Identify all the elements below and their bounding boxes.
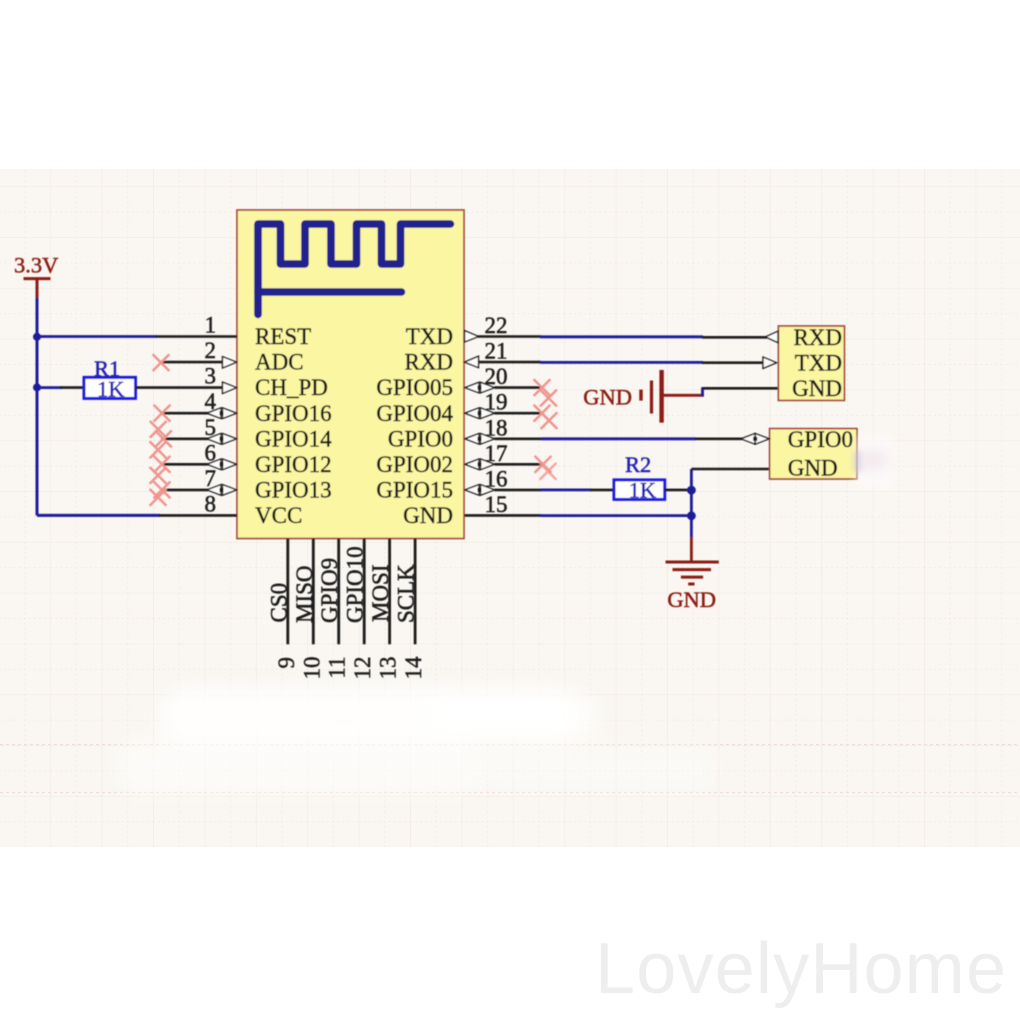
svg-text:GPIO14: GPIO14 <box>255 426 332 451</box>
svg-text:VCC: VCC <box>255 503 302 528</box>
pin arrow bidir pin4 <box>207 408 237 419</box>
pin arrow input pin3 <box>223 382 237 393</box>
no-connect X pin4 <box>154 405 171 422</box>
junction dot B <box>687 511 696 520</box>
wire pin5 <box>161 437 208 440</box>
power port 3.3V bar symbol <box>24 277 51 280</box>
svg-text:GND: GND <box>667 587 716 612</box>
power port GND1 thick bar <box>659 370 663 423</box>
svg-text:SCLK: SCLK <box>394 564 419 623</box>
smudge artifact right of header J2 <box>857 436 893 488</box>
no-connect X pin5 <box>155 430 172 447</box>
wire pin21 black-blue-black <box>478 361 764 364</box>
wire pin20 stub <box>495 386 543 389</box>
svg-text:LovelyHome: LovelyHome <box>595 929 1007 1009</box>
svg-text:RXD: RXD <box>404 350 453 375</box>
wire R2 to junction <box>664 489 691 492</box>
svg-text:8: 8 <box>205 491 217 516</box>
wire junction to GPIO0 header GND <box>691 468 769 471</box>
no-connect X pin19 offset <box>541 412 558 429</box>
junction dot A <box>687 486 696 495</box>
power port GND1 tick <box>639 390 642 401</box>
svg-text:15: 15 <box>485 492 508 517</box>
header J2 body GPIO0 GND <box>770 429 857 479</box>
resistor R2 body <box>614 480 665 500</box>
header J1 arrow RXD input <box>766 331 779 342</box>
power port GND1 thin bar <box>650 381 653 414</box>
pin arrow bidir pin18 <box>465 434 495 445</box>
wire pin10 <box>312 539 315 645</box>
svg-text:GPIO04: GPIO04 <box>376 401 453 426</box>
net 3.3V vertical rail wire <box>36 298 39 515</box>
wire pin19 stub <box>495 412 543 415</box>
wire pin17 stub <box>495 463 543 466</box>
no-connect X offset a <box>150 421 167 438</box>
svg-text:22: 22 <box>485 313 508 338</box>
svg-text:11: 11 <box>325 657 350 679</box>
no-connect X pin20 offset <box>540 390 557 407</box>
svg-text:GND: GND <box>583 385 632 410</box>
ground GND bar3 <box>681 576 703 579</box>
svg-text:GPIO13: GPIO13 <box>255 478 332 503</box>
wire pin7 <box>161 489 208 492</box>
wire pin22 black-blue-black <box>478 335 767 338</box>
wire pin18 black-blue-black <box>495 437 743 440</box>
strong dotted grid line <box>0 792 1020 794</box>
pin arrow bidir pin20 <box>465 382 495 393</box>
wire pin15 black-blue <box>465 514 692 517</box>
wire junction vertical <box>690 469 693 538</box>
svg-text:14: 14 <box>401 656 426 680</box>
svg-text:GPIO10: GPIO10 <box>343 546 368 623</box>
ground GND stem <box>690 537 693 561</box>
header J2 arrow GPIO0 bidir <box>741 434 769 445</box>
no-connect X pin20 <box>534 379 551 396</box>
svg-text:GPIO15: GPIO15 <box>376 478 453 503</box>
pin arrow bidir pin7 <box>207 485 237 496</box>
header J1 body RXD TXD GND <box>778 326 844 400</box>
pin arrow bidir pin6 <box>207 459 237 470</box>
wire GND1 red segment <box>662 394 704 397</box>
svg-text:GPIO05: GPIO05 <box>376 375 453 400</box>
svg-text:CS0: CS0 <box>266 583 291 623</box>
wire pin12 <box>363 539 366 645</box>
wire pin11 <box>337 539 340 645</box>
svg-text:GND: GND <box>792 376 842 401</box>
junction dot pin3 rail <box>33 383 41 391</box>
svg-text:GND: GND <box>403 503 453 528</box>
svg-text:ADC: ADC <box>255 350 304 375</box>
wire pin1 blue segment <box>37 335 157 338</box>
wire pin14 <box>414 539 417 645</box>
wire pin13 <box>388 539 391 645</box>
pin arrow bidir pin16 <box>465 485 495 496</box>
svg-text:3.3V: 3.3V <box>14 253 58 278</box>
svg-text:GPIO12: GPIO12 <box>255 452 332 477</box>
wire pin2 <box>161 361 222 364</box>
wire pin16 blue-black to R2 <box>495 489 615 492</box>
svg-text:21: 21 <box>485 339 508 364</box>
no-connect X pin2 <box>153 354 170 371</box>
resistor R1 body <box>84 377 136 398</box>
wire pin9 <box>286 539 289 645</box>
svg-text:GPIO9: GPIO9 <box>317 558 342 623</box>
wire pin6 <box>161 463 208 466</box>
svg-text:MOSI: MOSI <box>368 564 393 622</box>
svg-text:MISO: MISO <box>292 565 317 623</box>
svg-text:RXD: RXD <box>793 325 842 350</box>
antenna meander <box>258 224 451 315</box>
header J1 arrow TXD output <box>763 357 777 368</box>
schematic background band with grid <box>0 169 1020 847</box>
wire pin1 black segment <box>156 335 237 338</box>
no-connect X offset b <box>150 441 167 458</box>
no-connect X pin7 <box>154 482 171 499</box>
shadow artifact near header J2 <box>855 451 863 472</box>
no-connect X pin17 offset <box>540 463 557 480</box>
pin arrow bidir pin17 <box>465 459 495 470</box>
wire pin8 black segment <box>159 514 237 517</box>
wire GND1 blue step <box>701 387 704 396</box>
svg-text:6: 6 <box>205 440 217 465</box>
svg-text:R2: R2 <box>625 452 651 477</box>
pin arrow output pin22 <box>465 331 479 342</box>
wire pin8 blue segment <box>37 514 160 517</box>
wire pin4 <box>161 412 208 415</box>
svg-text:9: 9 <box>274 657 299 669</box>
svg-text:3: 3 <box>205 364 217 389</box>
ground GND bar1 <box>666 561 719 564</box>
svg-text:TXD: TXD <box>795 351 842 376</box>
svg-text:GPIO16: GPIO16 <box>255 401 332 426</box>
svg-text:1: 1 <box>205 313 217 338</box>
svg-text:13: 13 <box>376 657 401 680</box>
no-connect X pin19 <box>534 405 551 422</box>
no-connect X offset d <box>150 489 167 506</box>
svg-text:TXD: TXD <box>406 324 453 349</box>
pin arrow bidir pin5 <box>207 434 237 445</box>
svg-text:7: 7 <box>205 466 217 491</box>
wire GND1 black segment to header <box>703 387 779 390</box>
white smudge artifact center-bottom <box>115 688 720 796</box>
pin arrow bidir pin19 <box>465 408 495 419</box>
svg-text:1K: 1K <box>629 477 657 502</box>
svg-text:4: 4 <box>205 389 217 414</box>
svg-text:12: 12 <box>350 657 375 680</box>
svg-text:5: 5 <box>205 415 217 440</box>
no-connect X pin6 <box>154 456 171 473</box>
svg-text:1K: 1K <box>97 376 125 401</box>
wire pin3 R1 to module <box>136 386 223 389</box>
ground GND bar4 <box>688 583 694 586</box>
ground GND bar2 <box>673 568 712 571</box>
svg-text:CH_PD: CH_PD <box>255 375 328 400</box>
svg-text:GPIO0: GPIO0 <box>388 426 453 451</box>
svg-text:GND: GND <box>788 456 838 481</box>
svg-text:2: 2 <box>205 338 217 363</box>
svg-text:GPIO02: GPIO02 <box>376 452 453 477</box>
pin arrow input pin2 <box>223 357 237 368</box>
wire rail to R1 <box>37 386 62 389</box>
no-connect X pin17 <box>535 456 552 473</box>
junction dot pin1 rail <box>33 333 41 341</box>
svg-text:10: 10 <box>299 657 324 680</box>
module U1 body <box>237 210 464 539</box>
power port 3.3V stem <box>36 279 39 299</box>
no-connect X offset c <box>150 467 167 484</box>
pin arrow input pin21 <box>465 356 479 367</box>
svg-text:REST: REST <box>255 324 311 349</box>
svg-text:GPIO0: GPIO0 <box>788 427 853 452</box>
strong dotted grid line <box>0 744 1020 746</box>
